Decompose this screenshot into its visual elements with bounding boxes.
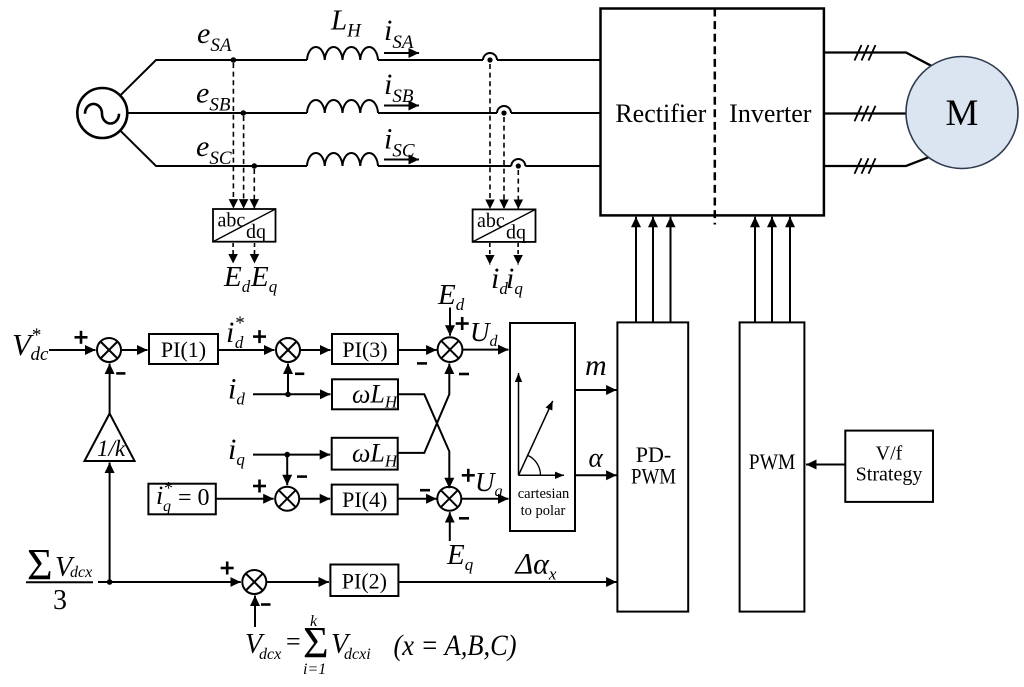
wire junction 2 to PI(3): [300, 349, 331, 351]
wire phase B: [127, 112, 307, 114]
slash marks middle line: [855, 106, 876, 122]
node dot id: [285, 392, 291, 398]
wire Vdc* to junction 1: [49, 349, 96, 351]
block PWM: [740, 322, 805, 611]
minus sign junction 5 left: [420, 489, 430, 492]
svg-text:M: M: [946, 93, 979, 134]
wire junction 6 to PI(2): [266, 581, 329, 583]
wire PI(1) to junction 2: [218, 349, 275, 351]
plus sign junction 2: [253, 330, 266, 343]
svg-text:eSC: eSC: [196, 130, 232, 169]
dashed wire sensor A to abc/dq 2: [489, 64, 491, 209]
node dot iq: [284, 452, 290, 458]
slash marks bottom line: [855, 158, 876, 174]
node dot 1/k tap: [107, 579, 113, 585]
svg-text:*: *: [164, 478, 173, 498]
summing junction 1: [97, 338, 121, 362]
current sensor phase C: [511, 159, 525, 166]
wire phase B to rectifier: [511, 112, 601, 114]
wire Vdcx into junction 6: [254, 596, 256, 628]
minus sign junction 5 bottom: [459, 517, 469, 520]
svg-text:(x = A,B,C): (x = A,B,C): [394, 629, 517, 662]
cross coupling wLH1 to junction 5: [398, 394, 449, 488]
inner x axis: [519, 474, 565, 476]
summing junction 3: [438, 337, 463, 362]
summing junction 6: [242, 570, 266, 594]
arrow iSA: [384, 52, 419, 54]
dashed wire sensor C to abc/dq 2: [517, 170, 519, 209]
svg-text:dq: dq: [246, 221, 266, 243]
plus sign Ed: [456, 317, 469, 330]
svg-text:id: id: [228, 373, 245, 409]
wire Eq into junction 5: [449, 512, 451, 541]
svg-text:cartesian: cartesian: [518, 486, 570, 502]
node dot phase B: [241, 110, 247, 116]
wire iq down to junction 4: [286, 455, 288, 486]
arrow iSC: [384, 159, 419, 161]
svg-text:i=1: i=1: [303, 661, 326, 678]
wire phase C: [120, 130, 307, 166]
svg-text:PI(1): PI(1): [161, 337, 206, 362]
current sensor phase B: [497, 106, 511, 113]
wire m to PD-PWM: [575, 389, 617, 391]
AC source sine symbol: [85, 104, 119, 124]
wire dot to 1/k triangle: [109, 463, 111, 583]
wire V/f to PWM: [806, 464, 845, 466]
svg-text:PWM: PWM: [631, 464, 676, 489]
svg-text:PI(4): PI(4): [342, 487, 387, 512]
fraction bar: [26, 581, 93, 583]
svg-text:dcx: dcx: [70, 564, 92, 581]
wire alpha to PD-PWM: [575, 474, 617, 476]
svg-text:eSA: eSA: [197, 17, 232, 56]
wire phase C to rectifier: [525, 165, 601, 167]
inner angle arc: [528, 455, 541, 475]
inner vector arrow: [519, 401, 553, 475]
dashed divider: [714, 9, 717, 225]
svg-text:V*dc: V*dc: [12, 325, 49, 365]
minus sign junction 4 top: [297, 475, 307, 478]
svg-text:Ud: Ud: [470, 317, 499, 350]
svg-text:q: q: [163, 498, 171, 515]
svg-text:iq: iq: [228, 433, 245, 469]
rectifier-inverter box: [601, 9, 824, 216]
wire phase A to rectifier: [497, 59, 601, 61]
svg-text:dq: dq: [506, 222, 526, 244]
motor wire middle: [824, 112, 906, 114]
svg-text:Inverter: Inverter: [729, 99, 812, 128]
wire junction 1 down from 1/k: [109, 364, 111, 415]
wire Ud to cartesian block: [462, 349, 508, 351]
svg-text:abc: abc: [218, 210, 246, 232]
svg-text:Strategy: Strategy: [856, 464, 923, 486]
block V/f Strategy: [845, 431, 933, 502]
current sensor phase A: [483, 53, 497, 60]
svg-text:3: 3: [53, 585, 67, 616]
dashed arrow Ed out: [232, 243, 234, 264]
plus sign junction 5 top: [462, 469, 475, 482]
dashed wire node B to abc/dq 1: [243, 116, 245, 209]
svg-text:Δαx: Δαx: [515, 548, 557, 584]
wire phase C after inductor: [378, 165, 511, 167]
wire PWM gate signal 2 to inverter: [771, 217, 773, 323]
wire phase A: [120, 60, 307, 96]
block PI(3): [332, 334, 398, 364]
svg-text:iq: iq: [506, 262, 523, 298]
svg-text:Ed: Ed: [223, 261, 251, 296]
wire PD-PWM gate signal 2 to rectifier: [652, 217, 654, 323]
arrow iSB: [384, 105, 419, 107]
wire id up to junction 2: [287, 364, 289, 395]
minus sign junction 6: [261, 603, 271, 606]
wire PI(2) to PD-PWM with delta alpha x: [398, 581, 616, 583]
summing junction 5: [437, 487, 461, 511]
dashed arrow iq out: [517, 243, 519, 265]
minus sign junction 1: [116, 372, 125, 375]
wire junction 1 to PI(1): [121, 349, 148, 351]
dashed wire sensor B to abc/dq 2: [503, 117, 505, 209]
wire Ed into junction 3: [449, 308, 451, 336]
wire PD-PWM gate signal 3 to rectifier: [670, 217, 672, 323]
cross coupling wLH2 to junction 3: [398, 364, 450, 453]
plus sign junction 6: [221, 562, 234, 575]
wire iq to wLH 2: [253, 454, 330, 456]
block iq*=0: [148, 484, 215, 515]
inductor LH phase B: [307, 100, 378, 113]
abc/dq block 2: [473, 209, 536, 242]
summing junction 2: [276, 338, 300, 362]
svg-text:ωLH: ωLH: [352, 380, 399, 412]
svg-text:PI(2): PI(2): [342, 569, 387, 594]
wire PWM gate signal 1 to inverter: [754, 217, 756, 323]
block PI(2): [330, 565, 398, 597]
slash marks top line: [855, 45, 876, 61]
block wLH 1: [332, 379, 398, 409]
svg-text:abc: abc: [477, 210, 505, 232]
dashed arrow Eq out: [254, 243, 256, 264]
minus sign junction 3 left: [417, 362, 427, 365]
wire Uq to cartesian block: [461, 498, 508, 500]
minus sign junction 3 bottom: [459, 373, 469, 376]
svg-text:dcxi: dcxi: [344, 646, 371, 663]
AC source circle: [77, 88, 127, 138]
svg-text:iSC: iSC: [384, 123, 415, 162]
wire PI(3) to junction 3: [398, 349, 437, 351]
svg-text:α: α: [589, 443, 604, 473]
wire phase B after inductor: [378, 112, 497, 114]
gain block 1/k triangle: [85, 414, 135, 462]
svg-text:1/k: 1/k: [97, 436, 126, 461]
svg-text:eSB: eSB: [196, 77, 231, 116]
block PI(1): [149, 334, 218, 364]
svg-text:iSA: iSA: [384, 14, 414, 53]
svg-text:Uq: Uq: [475, 467, 503, 500]
wire sumVdcx to junction 6: [98, 581, 241, 583]
block wLH 2: [332, 438, 398, 470]
motor wire bottom: [824, 157, 929, 166]
abc/dq block 1: [213, 209, 276, 242]
svg-text:k: k: [310, 613, 318, 630]
inductor LH phase C: [307, 153, 378, 166]
svg-text:= 0: = 0: [178, 485, 210, 511]
wire junction 4 to PI(4): [299, 498, 330, 500]
svg-text:=: =: [286, 627, 301, 656]
node dot phase A: [231, 57, 237, 63]
svg-text:Rectifier: Rectifier: [615, 99, 706, 128]
svg-text:iSB: iSB: [384, 68, 414, 107]
svg-text:PWM: PWM: [749, 449, 796, 474]
svg-text:i*d: i*d: [226, 313, 244, 352]
summing junction 4: [275, 487, 299, 511]
dashed wire node C to abc/dq 1: [253, 169, 255, 209]
node dot phase C: [252, 163, 258, 169]
wire PWM gate signal 3 to inverter: [789, 217, 791, 323]
inductor LH phase A: [307, 47, 378, 60]
svg-text:LH: LH: [330, 5, 362, 42]
plus sign junction 4: [253, 480, 266, 493]
minus sign junction 2: [295, 372, 304, 375]
wire id to wLH 1: [253, 393, 331, 395]
block PD-PWM: [617, 322, 688, 611]
dashed wire node A to abc/dq 1: [232, 63, 234, 209]
svg-text:ωLH: ωLH: [352, 439, 399, 471]
block PI(4): [332, 485, 398, 515]
wire iq*=0 to junction 4: [216, 498, 274, 500]
inner y axis: [518, 373, 520, 475]
svg-text:Eq: Eq: [446, 539, 474, 574]
motor M circle: [906, 57, 1018, 169]
wire PI(4) to junction 5: [398, 498, 437, 500]
dashed arrow id out: [489, 243, 491, 265]
svg-text:dcx: dcx: [259, 646, 281, 663]
svg-text:Eq: Eq: [250, 261, 278, 296]
svg-text:to polar: to polar: [521, 503, 566, 519]
svg-text:V/f: V/f: [876, 443, 903, 465]
svg-text:m: m: [585, 349, 607, 382]
motor wire top: [824, 53, 932, 67]
cartesian to polar block: [510, 323, 575, 531]
plus sign junction 1: [75, 331, 88, 344]
wire phase A after inductor: [378, 59, 483, 61]
wire PD-PWM gate signal 1 to rectifier: [635, 217, 637, 323]
svg-text:PI(3): PI(3): [342, 337, 387, 362]
